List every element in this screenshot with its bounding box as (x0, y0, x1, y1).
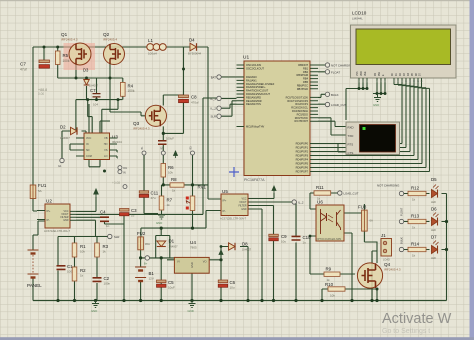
svg-text:R12: R12 (411, 186, 420, 191)
resistor R10 (325, 282, 345, 298)
svg-text:1k: 1k (103, 250, 107, 254)
svg-text:RD5/PSP5: RD5/PSP5 (296, 162, 309, 166)
svg-text:U1: U1 (243, 55, 249, 61)
svg-text:1k: 1k (80, 274, 84, 278)
battery PANEL (27, 250, 42, 288)
svg-text:R2: R2 (80, 268, 86, 273)
svg-text:C8: C8 (191, 95, 197, 100)
ground under LCD (373, 94, 381, 108)
resistor R6 (161, 164, 174, 178)
fuse FU2 (137, 231, 150, 250)
svg-text:HO: HO (104, 143, 108, 146)
LCD pin numbers (358, 81, 423, 83)
ground mid R7 (156, 213, 165, 226)
transistor Q3 (133, 105, 174, 144)
svg-text:L1: L1 (148, 38, 153, 43)
svg-text:1k: 1k (412, 226, 416, 230)
node NOT CHARGING flag (325, 63, 354, 68)
svg-text:C9: C9 (281, 234, 287, 239)
node terminals row mid (141, 146, 195, 155)
svg-text:RE0/AN5/RD: RE0/AN5/RD (246, 95, 261, 99)
svg-text:LED: LED (431, 257, 436, 260)
svg-text:LM044L: LM044L (352, 17, 363, 21)
svg-text:1N4007: 1N4007 (60, 136, 70, 140)
svg-text:ACS712ELCTR-30A-T: ACS712ELCTR-30A-T (220, 217, 247, 221)
svg-text:GND: GND (63, 219, 69, 222)
svg-text:U3: U3 (112, 135, 118, 140)
resistor R3 (95, 243, 109, 257)
svg-text:100k: 100k (128, 89, 135, 93)
resistor R7 (159, 196, 172, 210)
svg-text:RB7/PGD: RB7/PGD (297, 87, 308, 91)
svg-text:IP+: IP+ (47, 210, 51, 213)
svg-text:Go to Settings t: Go to Settings t (382, 328, 430, 335)
battery B1 (135, 267, 154, 281)
capacitor C9 (269, 234, 287, 244)
svg-text:RC2/CCP1: RC2/CCP1 (295, 102, 308, 106)
potentiometer RV1 (186, 185, 207, 211)
node BULK rotated label (399, 237, 403, 252)
svg-text:SD: SD (86, 149, 90, 152)
svg-text:+0.08: +0.08 (112, 181, 120, 185)
svg-text:D7: D7 (431, 235, 437, 240)
connector J1 (381, 233, 392, 262)
svg-text:47uf: 47uf (20, 68, 27, 72)
svg-text:U5: U5 (222, 189, 228, 194)
svg-text:R9: R9 (326, 267, 332, 272)
svg-text:PIC16F877A: PIC16F877A (244, 178, 265, 182)
microcontroller U1 PIC16F877A (237, 55, 319, 183)
svg-text:VEE: VEE (365, 71, 367, 76)
wire L1 D4 node down to C8 and Q3 (163, 47, 183, 185)
svg-text:COM: COM (86, 155, 92, 158)
svg-text:R7: R7 (167, 198, 173, 203)
gate driver U3 (76, 133, 122, 185)
svg-text:Q2: Q2 (103, 32, 110, 37)
resistor R13 (408, 214, 426, 230)
svg-text:10u: 10u (230, 286, 235, 290)
svg-text:RE1/AN6/WR: RE1/AN6/WR (246, 99, 262, 103)
svg-text:1N4007: 1N4007 (169, 245, 179, 249)
resistor R9 (324, 267, 340, 282)
power arrow above C6 (219, 250, 223, 258)
svg-text:RA0/AN0: RA0/AN0 (246, 75, 257, 79)
svg-text:IP+: IP+ (223, 200, 227, 203)
svg-text:1u: 1u (303, 241, 307, 245)
capacitor C4 (100, 210, 110, 229)
svg-text:RC5/SDO: RC5/SDO (297, 112, 308, 116)
svg-text:VB: VB (104, 137, 108, 140)
svg-text:RA3/AN3/VREF+: RA3/AN3/VREF+ (246, 85, 266, 89)
capacitor C7 film (90, 88, 101, 107)
svg-text:RV1: RV1 (198, 185, 207, 190)
capacitor C6 (218, 280, 235, 290)
current sensor U5 (220, 189, 248, 221)
origin marker (229, 167, 239, 177)
svg-text:D8: D8 (242, 242, 248, 247)
svg-text:1n: 1n (106, 224, 110, 228)
svg-text:VS: VS (104, 149, 108, 152)
svg-text:10k: 10k (168, 171, 173, 175)
svg-text:6A: 6A (370, 219, 374, 223)
svg-text:BY500644: BY500644 (188, 52, 202, 56)
text NOT CHARGING net (377, 184, 400, 188)
capacitor C8 (179, 95, 199, 105)
svg-text:LCD10: LCD10 (352, 11, 367, 16)
node IL_2 source terminal (292, 200, 304, 205)
wire D4 output rail (206, 47, 213, 228)
svg-text:G1: G1 (58, 164, 62, 168)
watermark Activate Windows (382, 311, 452, 335)
wire C7 stub (43, 47, 45, 60)
svg-text:30A: 30A (145, 242, 150, 246)
optocoupler U6 (316, 200, 344, 242)
svg-text:C7: C7 (90, 88, 96, 93)
svg-text:OPTOCOUPLER-NPN: OPTOCOUPLER-NPN (316, 238, 341, 241)
svg-text:C6: C6 (230, 280, 236, 285)
svg-text:VSS: VSS (357, 71, 359, 76)
svg-text:J1: J1 (381, 233, 386, 238)
svg-text:RC6/TX/CK: RC6/TX/CK (295, 116, 309, 120)
svg-text:RC1/T1OSI/CCP2: RC1/T1OSI/CCP2 (287, 99, 308, 103)
svg-text:100uF: 100uF (166, 137, 174, 141)
svg-text:RB1: RB1 (303, 66, 309, 70)
wire Q1 Q2 source row (58, 47, 146, 133)
wire LCD data staircase (318, 83, 430, 172)
LED D7 (431, 235, 439, 261)
svg-text:IRF2405 4: IRF2405 4 (103, 38, 117, 42)
svg-text:R13: R13 (411, 214, 420, 219)
svg-text:RS: RS (375, 72, 377, 76)
svg-text:RD2/PSP2: RD2/PSP2 (296, 150, 309, 154)
ground left divider (91, 301, 99, 314)
svg-text:10u: 10u (281, 240, 286, 244)
svg-text:BULK: BULK (400, 237, 404, 244)
svg-text:FLOAT: FLOAT (400, 207, 404, 216)
svg-text:TXD: TXD (348, 134, 354, 138)
right window edge (470, 0, 474, 340)
svg-text:GND: GND (91, 309, 97, 313)
terminal below D2 (58, 158, 64, 168)
wire terminal rxd txd (318, 118, 346, 152)
wire LCD power pins (346, 83, 385, 120)
voltage regulator U4 (174, 240, 209, 273)
capacitor C5 (157, 280, 176, 290)
svg-text:10k: 10k (80, 250, 85, 254)
wire U1 right flags (318, 65, 325, 104)
svg-text:R3: R3 (103, 244, 109, 249)
wire opto input (310, 193, 364, 301)
svg-text:RB0/INT: RB0/INT (298, 63, 308, 67)
resistor R5 (55, 51, 69, 65)
wire mid column nets (144, 155, 208, 228)
svg-text:U4: U4 (190, 240, 196, 245)
resistor R8 (170, 177, 184, 193)
svg-text:ACS712ELCTR-30A-T: ACS712ELCTR-30A-T (44, 229, 71, 233)
svg-text:RB2: RB2 (303, 70, 309, 74)
resistor R11 (314, 185, 331, 201)
ground center bus (188, 301, 196, 314)
capacitor C11 (139, 191, 159, 201)
svg-text:RD0/PSP0: RD0/PSP0 (296, 142, 309, 146)
capacitor C2 (93, 276, 111, 286)
svg-text:D6: D6 (431, 207, 437, 212)
diode D3 (83, 68, 99, 88)
svg-text:B1: B1 (149, 271, 155, 276)
svg-text:D2: D2 (60, 125, 66, 130)
svg-text:GND: GND (241, 208, 247, 211)
svg-text:RD1/PSP1: RD1/PSP1 (296, 146, 309, 150)
svg-text:Q1: Q1 (61, 32, 68, 37)
svg-text:VI: VI (177, 260, 180, 264)
node terminal above C3 (123, 185, 127, 189)
svg-text:U6: U6 (317, 200, 323, 205)
svg-text:R8: R8 (171, 177, 177, 182)
svg-text:RC0/T1OSO/T1CKI: RC0/T1OSO/T1CKI (286, 95, 309, 99)
svg-text:D1: D1 (169, 239, 175, 244)
svg-text:FLOAT: FLOAT (331, 70, 340, 74)
resistor R14 (408, 242, 426, 258)
fuse FU1 (30, 183, 47, 199)
svg-text:C3: C3 (131, 208, 137, 213)
svg-text:RD7/PSP7: RD7/PSP7 (296, 170, 309, 174)
svg-text:470uf: 470uf (191, 101, 199, 105)
diode D1 (157, 239, 178, 249)
svg-text:1u: 1u (131, 214, 135, 218)
svg-text:MCLR/Vpp/THV: MCLR/Vpp/THV (246, 125, 265, 129)
svg-text:VCC: VCC (86, 137, 91, 140)
svg-text:RA5/AN4/SS/C2OUT: RA5/AN4/SS/C2OUT (246, 92, 271, 96)
svg-text:R10: R10 (325, 282, 334, 287)
svg-text:R1: R1 (80, 244, 86, 249)
svg-text:RB3/PGM: RB3/PGM (297, 73, 308, 77)
capacitor C3 (120, 208, 138, 218)
svg-text:GND: GND (190, 262, 194, 268)
power arrow mid (174, 151, 178, 158)
diode D8 (229, 242, 252, 252)
svg-text:OSC2/CLKOUT: OSC2/CLKOUT (246, 66, 264, 70)
svg-text:RC4/SDI/SDA: RC4/SDI/SDA (292, 109, 308, 113)
terminals right of U3 (118, 166, 128, 175)
svg-text:R14: R14 (411, 242, 420, 247)
wire top supply bus (33, 46, 208, 48)
svg-text:IRF2405 4.3: IRF2405 4.3 (133, 127, 150, 131)
svg-text:RXD: RXD (348, 126, 354, 130)
transistor Q1 (61, 32, 91, 65)
svg-text:1k: 1k (412, 198, 416, 202)
node LOAD_CUT flag (325, 102, 346, 107)
node BULK flag (325, 92, 338, 97)
svg-text:R5: R5 (63, 53, 69, 58)
svg-text:100uH: 100uH (148, 52, 157, 56)
capacitor C7 electrolytic top-left (20, 60, 50, 96)
LED D5 (431, 177, 439, 204)
node BAT terminal (211, 75, 221, 80)
svg-text:C4: C4 (100, 210, 106, 215)
node LOAD_CUT right flag (338, 191, 359, 196)
svg-text:5A: 5A (38, 189, 42, 193)
capacitor C10 (292, 235, 312, 245)
wire FU2 D1 battery row (141, 228, 206, 300)
wire U4 regulator nets (161, 228, 248, 300)
svg-text:D3: D3 (83, 68, 89, 73)
svg-text:100n: 100n (104, 282, 111, 286)
LCD module LCD10 (351, 11, 457, 84)
svg-text:CTS: CTS (348, 151, 354, 155)
fuse FU3 (358, 205, 373, 232)
power arrow above U2 (94, 189, 98, 197)
svg-text:U2: U2 (46, 199, 52, 204)
node IL_1 terminal (211, 96, 222, 101)
svg-text:IL_2: IL_2 (298, 201, 304, 205)
svg-text:IRF2405 4.3: IRF2405 4.3 (384, 268, 401, 272)
svg-text:IL_1: IL_1 (211, 97, 217, 101)
svg-text:IN: IN (86, 143, 89, 146)
svg-text:C2: C2 (104, 276, 110, 281)
svg-text:IR2104: IR2104 (112, 140, 122, 144)
svg-text:RB6/PGC: RB6/PGC (297, 83, 308, 87)
svg-text:Q3: Q3 (133, 121, 140, 126)
virtual terminal (346, 122, 400, 155)
svg-text:IL_2: IL_2 (211, 107, 217, 111)
node terminal row1 (399, 191, 403, 195)
svg-text:C5: C5 (168, 280, 174, 285)
svg-text:1k: 1k (412, 254, 416, 258)
svg-text:RB5: RB5 (303, 80, 309, 84)
svg-text:Activate W: Activate W (382, 311, 452, 327)
svg-text:IOn: IOn (123, 166, 128, 170)
svg-text:FU2: FU2 (137, 231, 146, 236)
svg-text:LO: LO (104, 155, 107, 158)
svg-text:12V: 12V (149, 277, 154, 281)
node IL_2 terminal (211, 106, 222, 111)
svg-text:RC7/RX/DT: RC7/RX/DT (295, 119, 309, 123)
wire left rail (33, 47, 45, 301)
resistor R1 (72, 243, 86, 257)
node SLR terminal (211, 114, 222, 119)
wire U3 area (62, 104, 118, 167)
resistor R4 (121, 82, 135, 96)
svg-text:1k: 1k (172, 189, 176, 193)
svg-text:RA1/AN1: RA1/AN1 (246, 78, 257, 82)
svg-text:10uF: 10uF (168, 286, 175, 290)
svg-text:LOAD_CUT: LOAD_CUT (344, 192, 359, 196)
node B+ terminal (144, 256, 150, 266)
svg-text:Q4: Q4 (384, 262, 391, 267)
capacitor C1 (57, 264, 75, 274)
svg-text:GND: GND (156, 221, 162, 225)
bottom window edge (0, 337, 474, 340)
top window edge (0, 0, 474, 1)
svg-text:RE2/AN7/CS: RE2/AN7/CS (246, 102, 261, 106)
transistor Q2 (103, 32, 125, 65)
power arrow right of U5 (272, 186, 276, 193)
svg-text:R11: R11 (316, 185, 324, 190)
inductor L1 (147, 38, 166, 56)
svg-text:LED: LED (431, 229, 436, 232)
svg-text:OSC1/CLKIN: OSC1/CLKIN (246, 63, 261, 67)
svg-text:B+: B+ (144, 262, 148, 266)
svg-text:7805: 7805 (190, 246, 197, 250)
svg-text:RA4/T0CKI/C1OUT: RA4/T0CKI/C1OUT (246, 89, 269, 93)
svg-text:1N4007: 1N4007 (89, 84, 99, 88)
svg-text:RD3/PSP3: RD3/PSP3 (296, 154, 309, 158)
LED D6 (431, 207, 439, 233)
wire ground bus (33, 300, 447, 302)
current sensor U2 (37, 199, 76, 234)
resistor R2 (72, 267, 86, 281)
svg-text:1k: 1k (167, 203, 171, 207)
svg-text:NOT CHARGING: NOT CHARGING (377, 184, 400, 188)
svg-text:IRF2405 4.3: IRF2405 4.3 (61, 38, 78, 42)
svg-text:IN: IN (123, 171, 126, 175)
svg-text:RC3/SCK/SCL: RC3/SCK/SCL (291, 106, 308, 110)
svg-text:RD6/PSP6: RD6/PSP6 (296, 166, 309, 170)
svg-text:BAT: BAT (211, 76, 217, 80)
svg-text:47u: 47u (151, 196, 156, 200)
wire FU3 J1 Q4 (322, 231, 378, 300)
svg-text:D4: D4 (189, 38, 195, 43)
svg-text:C7: C7 (20, 62, 26, 67)
selection highlight over Q1 (64, 43, 96, 70)
svg-text:C11: C11 (151, 191, 159, 196)
svg-text:LED: LED (431, 201, 436, 204)
svg-text:LOAD_CUT: LOAD_CUT (331, 103, 347, 107)
svg-text:0.00: 0.00 (38, 92, 44, 96)
wire panel divider (58, 237, 108, 301)
svg-text:SLR: SLR (114, 235, 119, 239)
svg-text:104: 104 (93, 103, 98, 107)
svg-text:100k: 100k (63, 59, 70, 63)
svg-text:1N4007: 1N4007 (242, 248, 252, 252)
wire U1 left terminals (221, 77, 236, 116)
svg-text:R6: R6 (168, 165, 174, 170)
svg-text:BULK: BULK (331, 93, 339, 97)
svg-text:C10: C10 (303, 235, 312, 240)
wire U5 outputs (213, 193, 296, 301)
svg-text:IP-: IP- (223, 210, 226, 213)
transistor Q4 (357, 262, 400, 288)
node SLR left terminal (108, 234, 120, 239)
svg-text:PANEL: PANEL (27, 283, 42, 288)
svg-text:GND: GND (188, 309, 194, 313)
resistor R12 (408, 186, 426, 202)
svg-text:D5: D5 (431, 177, 437, 182)
svg-text:RD4/PSP4: RD4/PSP4 (296, 158, 309, 162)
diode D4 (188, 38, 202, 56)
svg-text:RTS: RTS (348, 143, 354, 147)
wire LED rows (404, 194, 447, 301)
svg-text:VDD: VDD (361, 71, 363, 76)
svg-text:RB4: RB4 (303, 77, 309, 81)
svg-text:VO: VO (203, 260, 207, 264)
svg-text:FU3: FU3 (358, 205, 367, 210)
svg-text:IP-: IP- (47, 219, 50, 222)
svg-text:10k: 10k (330, 294, 335, 298)
node FLOAT flag (325, 70, 340, 75)
svg-text:FU1: FU1 (38, 183, 47, 188)
diode D2 (60, 125, 77, 141)
svg-text:GND: GND (373, 103, 379, 107)
svg-text:SLR: SLR (211, 115, 216, 119)
svg-text:RA2/AN2/VREF-/CVREF: RA2/AN2/VREF-/CVREF (246, 82, 275, 86)
svg-text:R4: R4 (128, 84, 134, 89)
wire U2 outputs (76, 98, 217, 301)
node FLOAT rotated label (399, 207, 403, 223)
